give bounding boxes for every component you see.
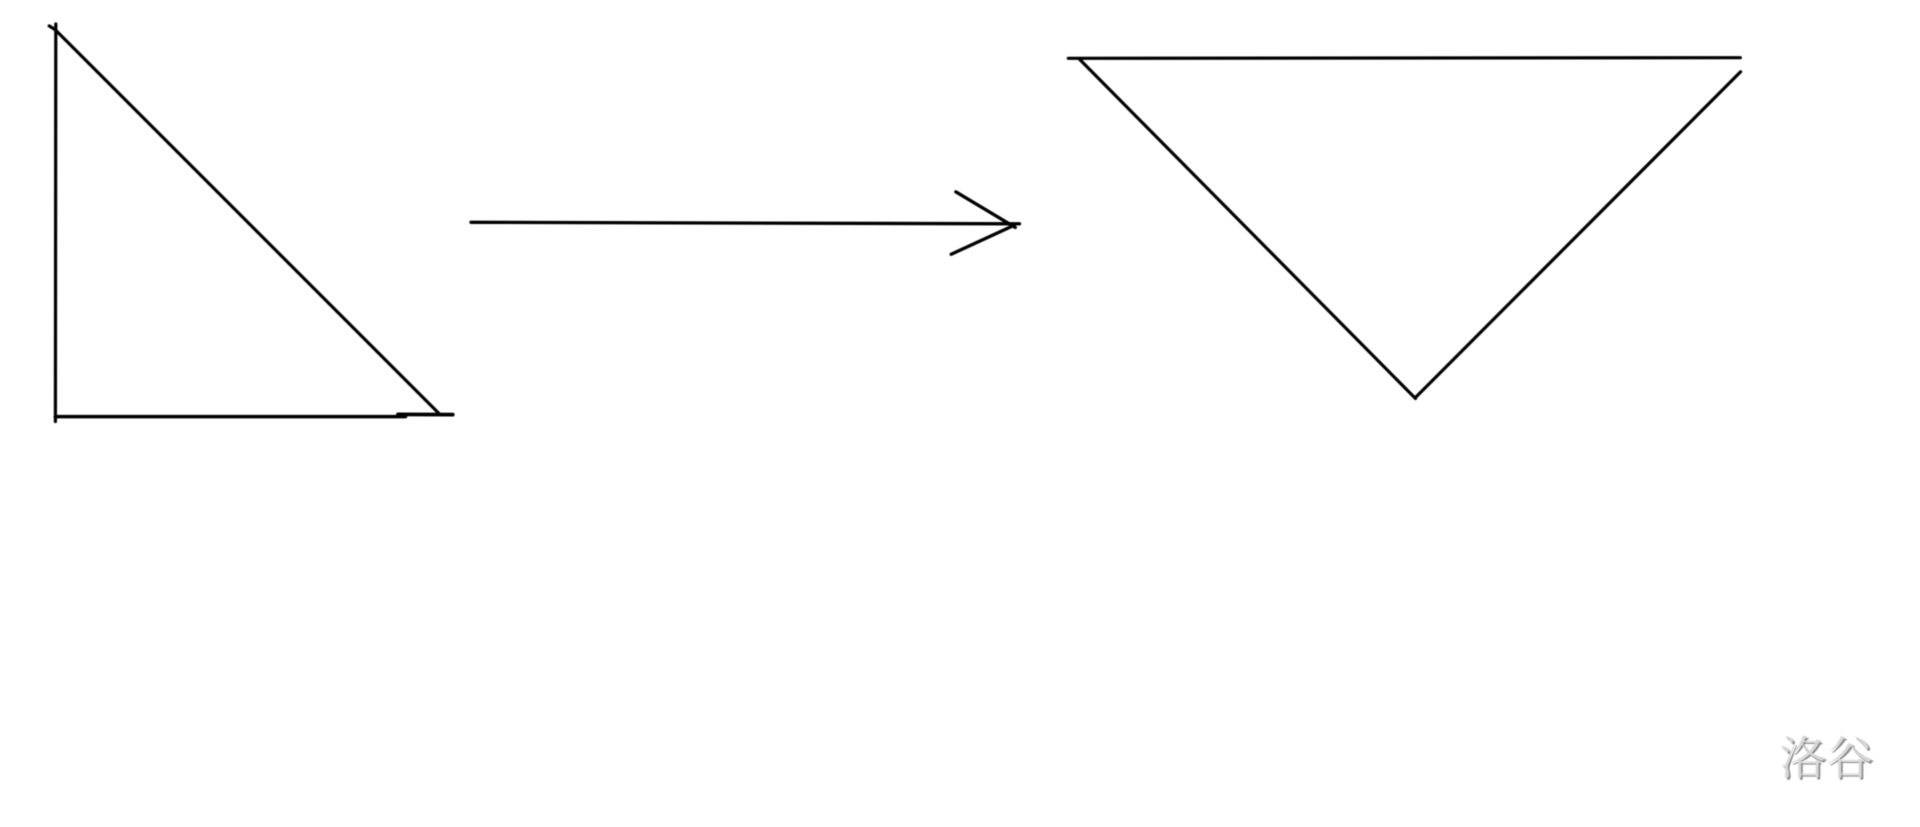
watermark "洛谷" face <box>1781 735 1872 778</box>
inverted triangle: right side <box>1416 72 1740 397</box>
arrow shaft <box>471 222 1020 224</box>
left right-triangle: top pen hook <box>49 26 54 29</box>
left right-triangle: vertical side <box>54 24 58 422</box>
left right-triangle: bottom side (main stroke) <box>55 415 405 419</box>
inverted triangle: left side <box>1080 60 1416 399</box>
inverted triangle: top side <box>1068 56 1740 60</box>
arrow head upper stroke <box>956 192 1016 228</box>
left right-triangle: hypotenuse <box>56 30 439 413</box>
arrow head lower stroke <box>951 226 1012 254</box>
watermark "洛谷" shadow <box>1783 737 1874 780</box>
left right-triangle: bottom side (second overlapping stroke) <box>398 413 453 417</box>
